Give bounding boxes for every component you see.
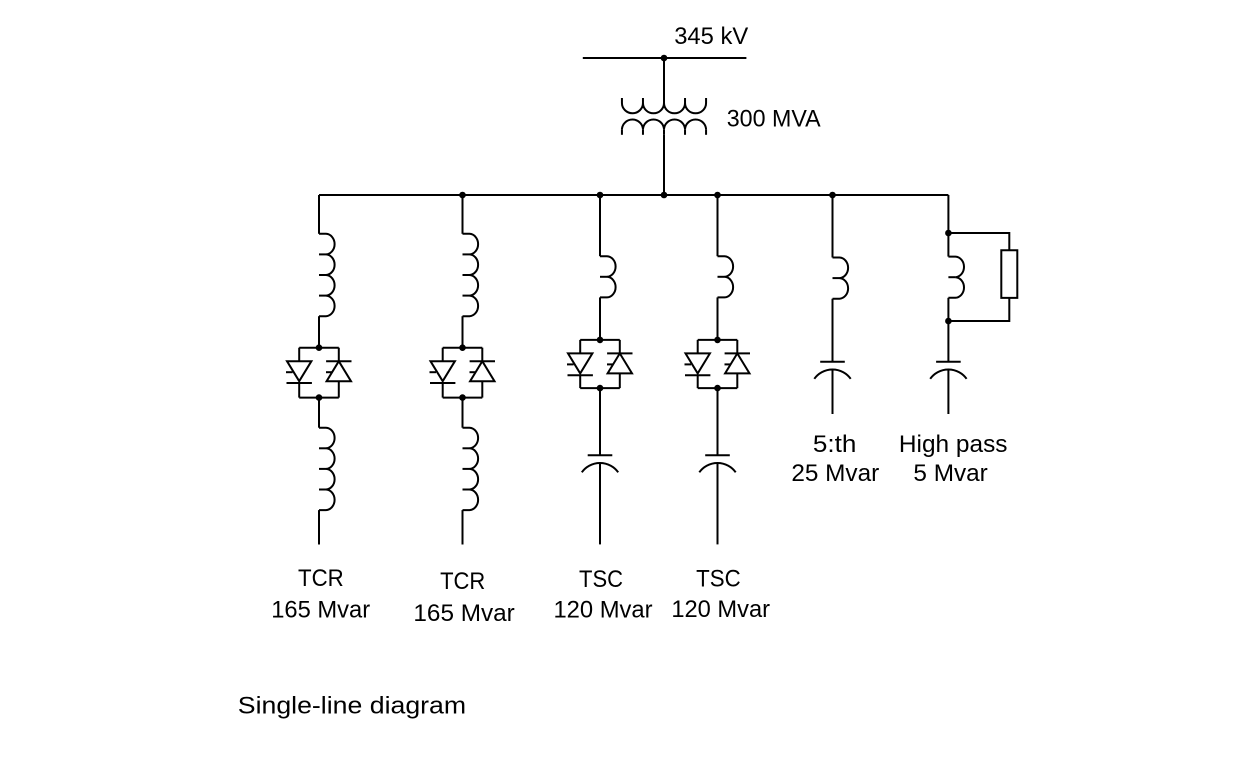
svg-text:High pass: High pass — [899, 431, 1008, 458]
svg-text:5 Mvar: 5 Mvar — [913, 460, 987, 487]
svg-text:TCR: TCR — [298, 565, 344, 592]
svg-text:120 Mvar: 120 Mvar — [553, 596, 652, 623]
svg-text:TSC: TSC — [579, 566, 623, 593]
svg-text:165 Mvar: 165 Mvar — [271, 596, 370, 623]
svg-text:165 Mvar: 165 Mvar — [413, 600, 514, 627]
svg-text:TCR: TCR — [440, 568, 485, 595]
svg-text:300 MVA: 300 MVA — [727, 106, 822, 133]
svg-text:25 Mvar: 25 Mvar — [791, 460, 879, 487]
svg-text:TSC: TSC — [696, 566, 741, 593]
svg-text:Single-line diagram: Single-line diagram — [238, 692, 466, 719]
svg-text:345 kV: 345 kV — [674, 23, 749, 50]
svg-text:5:th: 5:th — [813, 431, 857, 458]
svg-text:120 Mvar: 120 Mvar — [671, 596, 770, 623]
